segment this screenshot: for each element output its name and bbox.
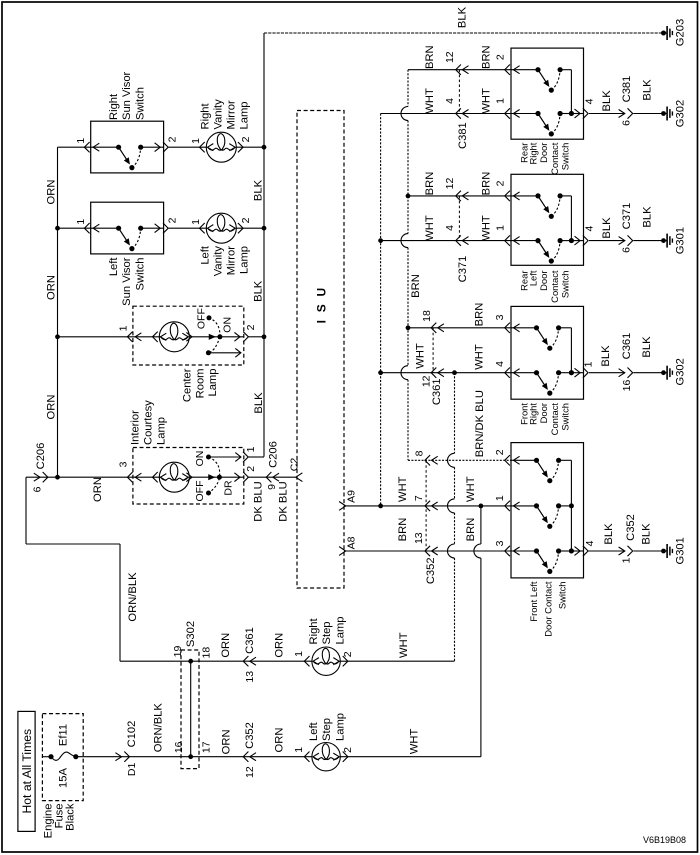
switch box rear right door contact xyxy=(511,48,584,139)
switch courtesy: common junction xyxy=(217,475,222,480)
wire courtesy lamp to switch xyxy=(189,476,219,478)
connector C371 link (dashed) xyxy=(458,196,460,241)
svg-text:2: 2 xyxy=(245,324,257,330)
svg-text:Door: Door xyxy=(538,403,549,423)
svg-text:BRN: BRN xyxy=(474,303,486,327)
svg-text:1: 1 xyxy=(494,98,506,104)
svg-text:DR: DR xyxy=(222,480,234,496)
wire left vanity lamp to BLK bus xyxy=(236,227,264,229)
connector C352 pin 7 xyxy=(425,501,430,511)
svg-text:Step: Step xyxy=(321,718,333,741)
connector C352 pin 13 xyxy=(425,546,430,556)
pin 2 exit center room lamp xyxy=(234,332,240,341)
junction BLK bus / right vanity lamp xyxy=(262,145,267,150)
svg-text:Lamp: Lamp xyxy=(239,102,251,130)
wire left step lamp row xyxy=(191,756,312,758)
svg-text:Contact: Contact xyxy=(549,142,560,175)
svg-text:WHT: WHT xyxy=(414,343,426,369)
svg-text:G302: G302 xyxy=(675,358,687,385)
svg-text:4: 4 xyxy=(444,98,456,104)
ground G203 xyxy=(661,31,666,36)
fuse element xyxy=(42,756,51,758)
pin 1 entry left sun visor switch xyxy=(84,223,89,233)
svg-text:1: 1 xyxy=(75,138,87,144)
svg-text:ORN: ORN xyxy=(46,395,58,420)
svg-text:C361: C361 xyxy=(431,378,443,405)
svg-text:17: 17 xyxy=(201,741,213,753)
svg-text:Contact: Contact xyxy=(549,403,560,436)
connector C352 pin 1 xyxy=(619,547,625,555)
svg-text:I S U: I S U xyxy=(314,286,328,324)
wire right sun visor switch internal out xyxy=(141,146,164,148)
switch box S right sun visor xyxy=(91,121,164,173)
lamp interior courtesy xyxy=(153,472,158,482)
svg-text:WHT: WHT xyxy=(397,476,409,502)
svg-text:WHT: WHT xyxy=(398,632,410,658)
connector C361 pin 18 xyxy=(431,323,436,333)
ground G302 (rear right) xyxy=(661,111,666,116)
wire center room lamp to switch xyxy=(189,336,220,338)
svg-text:Switch: Switch xyxy=(560,143,571,171)
svg-text:Left: Left xyxy=(108,257,120,277)
svg-text:4: 4 xyxy=(583,98,595,104)
svg-text:9: 9 xyxy=(266,484,278,490)
svg-text:WHT: WHT xyxy=(408,729,420,755)
wire center room lamp to BLK bus xyxy=(248,336,264,338)
svg-text:Room: Room xyxy=(194,369,206,399)
svg-text:Lamp: Lamp xyxy=(334,617,346,645)
junction rear right internal bus xyxy=(569,111,574,116)
switch contacts front right door xyxy=(511,327,537,329)
svg-text:Right: Right xyxy=(527,142,538,164)
pin C2 of ISU xyxy=(296,473,303,482)
junction rear left internal bus xyxy=(569,238,574,243)
switch box front left door contact xyxy=(511,443,584,578)
svg-text:C206: C206 xyxy=(35,443,47,470)
wire BLK front right to C361 xyxy=(589,372,625,374)
pin 1 entry center room lamp xyxy=(127,332,132,342)
svg-text:18: 18 xyxy=(421,310,433,322)
svg-text:Door: Door xyxy=(538,271,549,291)
lamp center room xyxy=(153,332,158,342)
pin 1 exit front right switch xyxy=(575,368,581,377)
svg-text:WHT: WHT xyxy=(480,215,492,241)
svg-text:A8: A8 xyxy=(345,536,357,549)
switch courtesy: moving arrow xyxy=(209,475,214,479)
junction right-step WHT / front right row xyxy=(452,370,457,375)
switch contacts rear right door xyxy=(511,69,538,71)
ground G302 (front right) xyxy=(661,370,666,375)
pin 2 entry front left switch xyxy=(505,455,510,465)
connector C206 pin 6 xyxy=(34,473,40,481)
connector C352 link (dashed) xyxy=(425,460,427,551)
svg-text:Door Contact: Door Contact xyxy=(542,581,553,637)
wire center room common to pin 2 xyxy=(220,336,244,338)
svg-text:BLK: BLK xyxy=(253,280,265,302)
svg-text:12: 12 xyxy=(244,766,256,778)
pin 1 exit courtesy lamp xyxy=(243,452,248,462)
svg-text:Ef11: Ef11 xyxy=(58,724,70,746)
pin 2 exit courtesy lamp xyxy=(234,473,240,482)
svg-text:BRN/DK BLU: BRN/DK BLU xyxy=(474,390,486,457)
svg-text:Lamp: Lamp xyxy=(156,417,168,445)
wire BLK front left to C352 xyxy=(588,550,625,552)
svg-text:Lamp: Lamp xyxy=(207,369,219,397)
connector C206 pin 9 xyxy=(266,472,271,482)
svg-text:12: 12 xyxy=(444,178,456,190)
svg-text:15A: 15A xyxy=(58,768,70,788)
switch center room: moving arrow xyxy=(209,335,214,339)
svg-text:19: 19 xyxy=(172,646,184,658)
svg-text:13: 13 xyxy=(244,671,256,683)
switch courtesy: ON contact xyxy=(206,455,211,460)
lamp left step xyxy=(304,752,309,762)
connector C381 link (dashed) xyxy=(458,70,460,114)
svg-text:BLK: BLK xyxy=(603,523,615,545)
svg-text:BLK: BLK xyxy=(601,90,613,112)
pin 1 entry rear left switch xyxy=(505,235,510,245)
svg-text:BRN: BRN xyxy=(410,274,422,298)
wire ORN bus vertical xyxy=(57,147,59,477)
junction BRN bus / rear left row xyxy=(406,194,411,199)
junction BLK bus / left vanity lamp xyxy=(262,226,267,231)
switch center room: dashed travel to OFF xyxy=(209,318,220,337)
connector C361 pin 13 xyxy=(243,656,248,666)
svg-text:18: 18 xyxy=(200,647,212,659)
svg-text:Front Left: Front Left xyxy=(528,581,539,622)
pin 1 entry front left switch xyxy=(505,501,510,511)
svg-text:C361: C361 xyxy=(244,627,256,654)
svg-text:Switch: Switch xyxy=(135,87,147,120)
svg-text:BRN: BRN xyxy=(465,518,477,542)
wire WHT vertical left step lamp xyxy=(480,506,482,544)
svg-text:6: 6 xyxy=(620,247,632,253)
svg-text:8: 8 xyxy=(413,450,425,456)
svg-text:OFF: OFF xyxy=(194,481,206,502)
svg-text:1: 1 xyxy=(582,361,594,367)
wire WHT front right row xyxy=(381,372,511,374)
connector C381 pin 4 xyxy=(456,108,461,118)
pin 3 entry front left switch xyxy=(505,546,510,556)
svg-text:Courtesy: Courtesy xyxy=(143,400,155,445)
lamp right step xyxy=(304,656,309,666)
switch courtesy: ON line to pin 1 xyxy=(209,456,241,458)
pin 1 entry right sun visor switch xyxy=(84,142,89,152)
svg-text:Door: Door xyxy=(538,143,549,163)
svg-text:C102: C102 xyxy=(126,721,138,748)
wire BRN/DK BLU corner from BRN bus xyxy=(408,459,511,461)
connector C381 pin 6 xyxy=(619,110,625,118)
connector C371 pin 6 xyxy=(619,237,625,245)
svg-text:Sun Visor: Sun Visor xyxy=(121,71,133,120)
connector C371 pin 12 xyxy=(456,191,461,201)
svg-text:Interior: Interior xyxy=(130,410,142,445)
svg-text:WHT: WHT xyxy=(424,215,436,241)
junction ORN bus / left sun visor switch xyxy=(55,226,60,231)
pin A9 of ISU xyxy=(339,502,346,511)
svg-text:BRN: BRN xyxy=(480,172,492,196)
junction S302 top xyxy=(188,659,193,664)
svg-text:Lamp: Lamp xyxy=(334,713,346,741)
svg-text:3: 3 xyxy=(494,540,506,546)
wire courtesy pin2 to ISU C2 xyxy=(248,476,295,478)
wire BLK to G301 (front left) xyxy=(633,550,663,552)
fuse box Ef11 (dashed) xyxy=(42,714,83,801)
svg-text:2: 2 xyxy=(494,54,506,60)
svg-text:1: 1 xyxy=(293,651,305,657)
svg-text:BLK: BLK xyxy=(640,523,652,545)
pin A8 of ISU xyxy=(339,547,346,556)
svg-text:1: 1 xyxy=(494,225,506,231)
svg-text:Sun Visor: Sun Visor xyxy=(121,257,133,306)
junction S302 bottom xyxy=(188,754,193,759)
svg-text:C381: C381 xyxy=(621,76,633,103)
wire WHT rear left row xyxy=(381,240,511,242)
junction front right internal bus xyxy=(569,370,574,375)
svg-text:WHT: WHT xyxy=(474,344,486,370)
pin 2 exit right sun visor switch xyxy=(155,143,161,152)
svg-text:1: 1 xyxy=(494,495,506,501)
svg-text:WHT: WHT xyxy=(480,88,492,114)
connector C361 link (dashed) xyxy=(432,328,434,373)
svg-text:C352: C352 xyxy=(625,514,637,541)
svg-text:ON: ON xyxy=(194,451,206,467)
wire rear right exit xyxy=(571,113,583,115)
svg-text:DK BLU: DK BLU xyxy=(253,481,265,521)
svg-text:OFF: OFF xyxy=(195,308,207,329)
wire BLK rear right to C381 xyxy=(589,113,625,115)
junction front left internal bus xyxy=(569,549,574,554)
svg-text:G302: G302 xyxy=(675,100,687,127)
junction WHT bus / ISU A9 row xyxy=(378,504,383,509)
junction WHT bus / front right row xyxy=(378,370,383,375)
svg-text:ORN: ORN xyxy=(273,728,285,753)
svg-text:BRN: BRN xyxy=(424,172,436,196)
wire BRN front right row xyxy=(408,327,511,329)
wire row C: ORN bus to center room lamp xyxy=(58,336,161,338)
junction G203 xyxy=(661,31,666,36)
svg-text:WHT: WHT xyxy=(424,88,436,114)
module ISU (dashed box) xyxy=(297,111,344,589)
connector C102 xyxy=(115,753,121,761)
svg-text:BRN: BRN xyxy=(424,45,436,69)
pin 3 entry interior courtesy lamp xyxy=(127,472,132,482)
svg-text:16: 16 xyxy=(173,741,185,753)
svg-text:7: 7 xyxy=(413,495,425,501)
switch center room: OFF contact xyxy=(207,315,212,320)
svg-text:3: 3 xyxy=(494,314,506,320)
svg-text:BLK: BLK xyxy=(641,336,653,358)
connector C352 pin 12 xyxy=(243,752,248,762)
svg-text:1: 1 xyxy=(190,138,202,144)
wire right step lamp row xyxy=(120,660,312,662)
svg-text:1: 1 xyxy=(190,219,202,225)
junction left-step WHT / ISU A9 row xyxy=(479,504,484,509)
wire front right exit xyxy=(571,372,583,374)
switch center room: common junction xyxy=(217,334,222,339)
svg-text:G301: G301 xyxy=(675,537,687,564)
svg-text:13: 13 xyxy=(413,532,425,544)
svg-text:Right: Right xyxy=(108,93,120,120)
svg-text:C2: C2 xyxy=(288,458,300,472)
wire courtesy common to pin 2 xyxy=(219,476,243,478)
svg-text:Left: Left xyxy=(527,270,538,286)
svg-text:2: 2 xyxy=(167,217,179,223)
wire right step lamp WHT xyxy=(340,660,455,662)
svg-text:S302: S302 xyxy=(185,621,197,647)
svg-text:Center: Center xyxy=(182,368,194,402)
switch center room: lower contact line xyxy=(208,352,241,354)
svg-text:C361: C361 xyxy=(621,333,633,360)
svg-text:ON: ON xyxy=(221,317,233,333)
svg-text:2: 2 xyxy=(245,466,257,472)
svg-text:BLK: BLK xyxy=(457,6,469,28)
wire corner C206 row xyxy=(26,476,58,478)
connector C371 pin 4 xyxy=(456,235,461,245)
svg-text:C381: C381 xyxy=(457,122,469,149)
svg-text:C371: C371 xyxy=(457,256,469,283)
svg-text:ORN/BLK: ORN/BLK xyxy=(127,572,139,622)
svg-text:BRN: BRN xyxy=(480,45,492,69)
switch contacts rear left door xyxy=(511,195,538,197)
svg-text:2: 2 xyxy=(342,747,354,753)
svg-text:BRN: BRN xyxy=(397,518,409,542)
svg-text:Lamp: Lamp xyxy=(239,246,251,274)
svg-text:Vanity: Vanity xyxy=(213,246,225,277)
svg-text:BLK: BLK xyxy=(642,206,654,228)
wire left sun visor switch internal out xyxy=(141,227,164,229)
svg-text:2: 2 xyxy=(240,217,252,223)
svg-text:3: 3 xyxy=(117,461,129,467)
wire BLK rear left to C371 xyxy=(589,240,625,242)
wire BLK to G301 xyxy=(633,240,663,242)
pin 4 exit rear left switch xyxy=(575,236,581,245)
svg-text:G301: G301 xyxy=(675,227,687,254)
svg-text:Left: Left xyxy=(200,245,212,265)
lamp right vanity mirror xyxy=(200,142,205,152)
wire front left exit xyxy=(571,550,583,552)
ground G301 (front left) xyxy=(661,549,666,554)
svg-text:4: 4 xyxy=(583,226,595,232)
svg-text:1: 1 xyxy=(245,446,257,452)
switch box left sun visor xyxy=(91,202,164,254)
junction ORN bus / C206 row xyxy=(55,475,60,480)
lamp left vanity mirror xyxy=(200,223,205,233)
svg-text:4: 4 xyxy=(444,225,456,231)
svg-text:16: 16 xyxy=(621,380,633,392)
junction BLK bus / center room lamp xyxy=(262,334,267,339)
pin 4 exit rear right switch xyxy=(575,109,581,118)
pin 3 entry front right switch xyxy=(505,323,510,333)
wire left sun visor sw to left vanity lamp xyxy=(169,227,208,229)
svg-text:ORN: ORN xyxy=(273,633,285,658)
svg-text:ORN: ORN xyxy=(46,275,58,300)
svg-text:Switch: Switch xyxy=(135,258,147,291)
junction ORN bus / center room lamp xyxy=(55,334,60,339)
wire ORN/BLK horizontal xyxy=(26,543,120,545)
svg-text:6: 6 xyxy=(31,486,43,492)
svg-text:BLK: BLK xyxy=(253,392,265,414)
svg-text:ORN: ORN xyxy=(220,633,232,658)
switch courtesy: dashed travel ON-common-OFF xyxy=(209,457,220,493)
svg-text:2: 2 xyxy=(494,449,506,455)
svg-text:D1: D1 xyxy=(126,763,138,777)
switch center room: dashed travel to lower xyxy=(208,337,220,353)
wire BRN bus vertical (dashed) xyxy=(407,70,409,107)
wire splice S302 vertical xyxy=(190,661,192,757)
svg-text:1: 1 xyxy=(621,557,633,563)
svg-text:BLK: BLK xyxy=(253,179,265,201)
wire right sun visor sw to right vanity lamp xyxy=(169,146,208,148)
wire rear left exit xyxy=(571,240,583,242)
svg-text:BLK: BLK xyxy=(600,345,612,367)
svg-text:2: 2 xyxy=(494,180,506,186)
svg-text:C371: C371 xyxy=(621,203,633,230)
splice box S302 (dashed) xyxy=(181,650,199,769)
wire BRN ISU A8 row xyxy=(344,550,511,552)
svg-text:BLK: BLK xyxy=(601,217,613,239)
svg-text:Switch: Switch xyxy=(560,403,571,431)
wire courtesy pin1 to BLK bus corner xyxy=(248,456,264,458)
switch center room: lower contact xyxy=(206,350,211,355)
svg-text:WHT: WHT xyxy=(465,476,477,502)
svg-text:Switch: Switch xyxy=(556,582,567,610)
svg-text:6: 6 xyxy=(620,120,632,126)
ground G301 (rear left) xyxy=(661,238,666,243)
wire left step lamp WHT xyxy=(340,756,481,758)
svg-text:C352: C352 xyxy=(425,557,437,584)
pin 4 exit front left switch xyxy=(575,547,581,556)
junction WHT bus / rear left row xyxy=(378,238,383,243)
svg-text:Right: Right xyxy=(200,102,212,129)
svg-text:12: 12 xyxy=(444,51,456,63)
switch contacts right sun visor xyxy=(116,145,121,150)
connector C381 pin 12 xyxy=(456,65,461,75)
wire WHT rear right row xyxy=(381,113,511,115)
connector C361 pin 16 xyxy=(619,369,625,377)
wire row A: ORN bus to right sun visor switch xyxy=(58,146,119,148)
wire fuse to C102 xyxy=(76,756,191,758)
svg-text:4: 4 xyxy=(494,361,506,367)
svg-text:Vanity: Vanity xyxy=(213,99,225,130)
svg-text:ORN: ORN xyxy=(220,729,232,754)
switch courtesy: OFF contact xyxy=(206,491,211,496)
wire ORN/BLK vertical xyxy=(119,544,121,661)
switch box rear left door contact xyxy=(511,174,584,265)
connector C352 pin 8 xyxy=(425,455,430,465)
svg-text:ORN: ORN xyxy=(46,180,58,205)
svg-text:Mirror: Mirror xyxy=(226,100,238,129)
wire ORN junction to courtesy lamp xyxy=(58,476,161,478)
svg-text:Right: Right xyxy=(308,617,320,644)
svg-text:2: 2 xyxy=(240,136,252,142)
wire BRN rear right row xyxy=(408,69,511,71)
junction BRN bus / front right row xyxy=(406,325,411,330)
svg-text:C206: C206 xyxy=(268,441,280,468)
svg-text:V6B19B08: V6B19B08 xyxy=(643,835,686,845)
wire row B: ORN bus to left sun visor switch xyxy=(58,227,119,229)
svg-text:C352: C352 xyxy=(244,722,256,749)
svg-text:Left: Left xyxy=(308,721,320,741)
svg-text:Black: Black xyxy=(65,803,77,831)
svg-text:A9: A9 xyxy=(345,490,357,503)
wire BLK bus vertical xyxy=(263,33,265,457)
pin 2 entry rear left switch xyxy=(505,191,510,201)
svg-text:Contact: Contact xyxy=(549,270,560,303)
wire BLK to G302 xyxy=(633,113,663,115)
svg-text:1: 1 xyxy=(293,747,305,753)
pin 2 exit left sun visor switch xyxy=(155,224,161,233)
